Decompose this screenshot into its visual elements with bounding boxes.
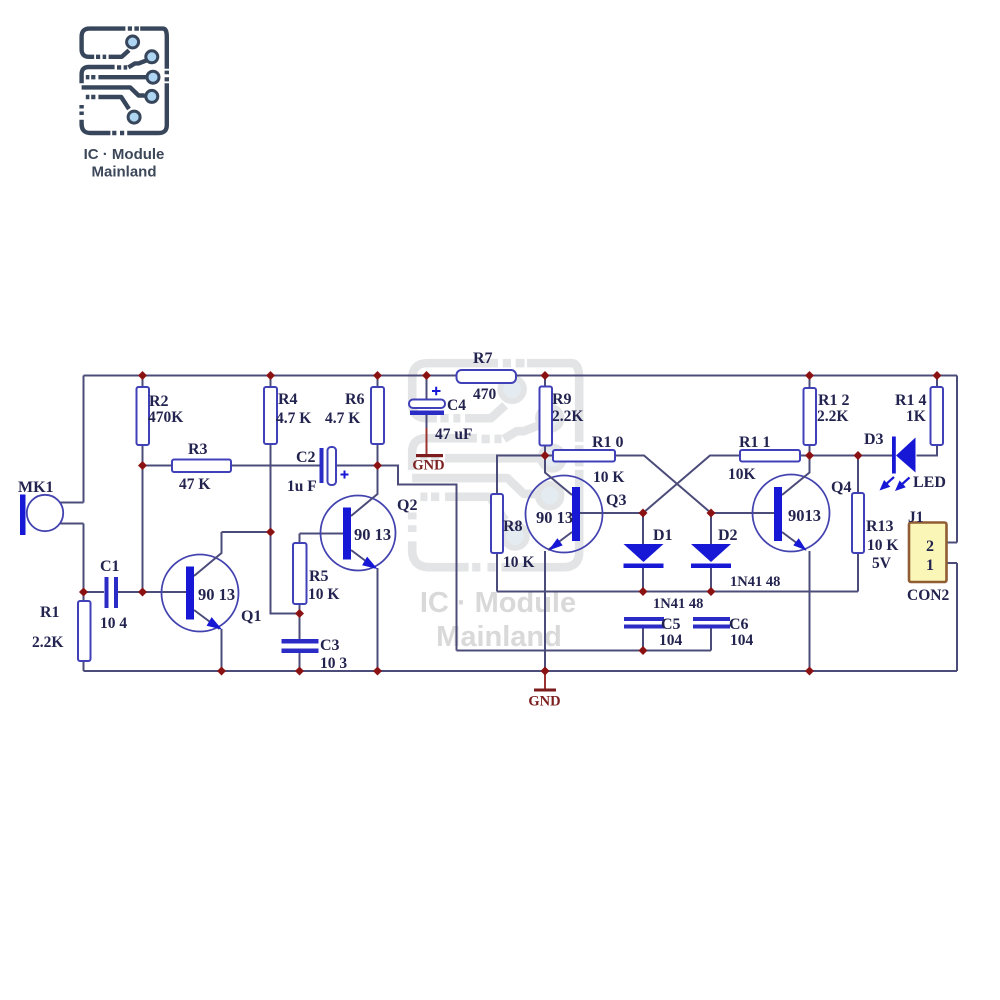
wire C3 bottom lead [299, 652, 301, 671]
svg-text:R6: R6 [345, 391, 365, 408]
svg-text:LED: LED [913, 474, 946, 491]
wire node A to R8 top [497, 456, 545, 592]
capacitor C4 electrolytic [409, 387, 472, 443]
svg-text:R13: R13 [866, 518, 894, 535]
wire R4 branch [270, 376, 272, 533]
resistor R7 [457, 350, 517, 403]
wire C3 top lead [299, 614, 301, 640]
svg-text:10 K: 10 K [503, 554, 534, 571]
svg-text:10 K: 10 K [593, 469, 624, 486]
watermark text IC Module Mainland [420, 587, 576, 653]
wire R4 node to R5 bottom [271, 532, 300, 614]
wire R13 branch [857, 456, 859, 592]
transistor Q3 [526, 456, 627, 672]
junction dots top rail [138, 371, 942, 380]
wire R1 branch [83, 592, 85, 671]
wire C1 right lead [118, 591, 143, 593]
svg-text:104: 104 [659, 632, 683, 649]
svg-text:47 K: 47 K [179, 476, 210, 493]
svg-text:GND: GND [528, 694, 560, 710]
svg-text:R1: R1 [40, 604, 60, 621]
diode D1 [624, 513, 704, 612]
svg-text:10 3: 10 3 [320, 655, 347, 672]
transistor Q2 [321, 466, 418, 672]
svg-text:C1: C1 [100, 558, 120, 575]
svg-text:1: 1 [926, 557, 934, 574]
svg-text:1K: 1K [906, 408, 926, 425]
svg-text:2.2K: 2.2K [552, 408, 583, 425]
wire bottom ground rail [84, 670, 958, 672]
wire R6 branch [377, 376, 379, 466]
svg-text:D3: D3 [864, 431, 884, 448]
svg-text:CON2: CON2 [907, 587, 949, 604]
transistor Q4 [753, 456, 852, 672]
wire R11 left lead cross couple to Q3 base node [643, 456, 740, 514]
wire left rail lower [83, 524, 85, 593]
junction dots middle [79, 451, 863, 655]
wire R5 branch [299, 534, 301, 614]
wire R2 node to C1 node [142, 466, 144, 593]
svg-text:104: 104 [730, 632, 754, 649]
capacitor C6 [693, 616, 754, 651]
svg-text:R1 1: R1 1 [739, 434, 771, 451]
wire R12 branch [809, 376, 811, 456]
wire Q4 base [711, 512, 774, 514]
wire R10 right lead cross couple to Q4 base node [615, 456, 711, 514]
wire C1 left lead [84, 591, 105, 593]
svg-text:90 13: 90 13 [354, 525, 391, 544]
svg-text:R1 2: R1 2 [818, 392, 850, 409]
svg-text:Mainland: Mainland [436, 621, 562, 653]
diode D2 [691, 513, 780, 592]
svg-text:4.7 K: 4.7 K [276, 410, 311, 427]
svg-text:R1 4: R1 4 [895, 392, 927, 409]
wire R2 branch [142, 376, 144, 466]
resistor R10 [553, 434, 624, 486]
resistor R4 [264, 387, 311, 444]
svg-text:10 K: 10 K [308, 586, 339, 603]
svg-text:R5: R5 [309, 568, 329, 585]
wire C2 right lead [336, 465, 378, 467]
svg-text:GND: GND [412, 458, 444, 474]
svg-text:1u F: 1u F [287, 478, 317, 495]
svg-text:90 13: 90 13 [536, 508, 573, 527]
svg-text:R2: R2 [149, 393, 169, 410]
resistor R5 [293, 543, 339, 604]
svg-text:2.2K: 2.2K [817, 408, 848, 425]
svg-text:Q2: Q2 [397, 497, 417, 514]
ground symbol near C4 [412, 428, 444, 474]
svg-text:D1: D1 [653, 527, 673, 544]
svg-text:MK1: MK1 [18, 479, 54, 496]
svg-text:Q4: Q4 [831, 479, 851, 496]
capacitor C3 [282, 637, 348, 672]
wire R9 branch [544, 376, 546, 456]
LED D3 [864, 431, 946, 491]
resistor R11 [728, 434, 800, 483]
svg-text:Q1: Q1 [241, 608, 261, 625]
wire Q2 base [300, 533, 344, 535]
svg-text:9013: 9013 [788, 506, 821, 525]
svg-text:R7: R7 [473, 350, 493, 367]
svg-text:Q3: Q3 [606, 492, 626, 509]
svg-text:47 uF: 47 uF [435, 426, 472, 443]
wire C4 top lead [426, 376, 428, 401]
wire Q3 base [580, 512, 643, 514]
wire right rail upper [956, 376, 958, 543]
svg-text:R1 0: R1 0 [592, 434, 624, 451]
brand text IC Module Mainland [84, 146, 165, 181]
wire right rail lower [956, 563, 958, 671]
brand logo icon [82, 29, 167, 133]
svg-text:R8: R8 [503, 518, 523, 535]
resistor R9 [540, 387, 584, 446]
svg-text:470: 470 [473, 386, 497, 403]
svg-text:C4: C4 [447, 397, 466, 414]
svg-text:10 4: 10 4 [100, 615, 127, 632]
wire Q1 base [143, 591, 187, 593]
capacitor C5 [624, 616, 683, 651]
svg-text:R9: R9 [552, 391, 572, 408]
wire trigger line to C5 C6 bottoms [457, 650, 712, 652]
wire MK1 top lead [60, 502, 84, 504]
svg-text:R3: R3 [188, 441, 208, 458]
resistor R12 [804, 388, 850, 445]
svg-text:D2: D2 [718, 527, 738, 544]
watermark center logo [412, 363, 579, 567]
resistor R8 [491, 494, 534, 571]
svg-text:1N41 48: 1N41 48 [730, 574, 780, 590]
svg-text:C2: C2 [296, 449, 316, 466]
wire R3 right lead to C2 [231, 465, 320, 467]
wire top supply rail [84, 375, 958, 377]
wire R3 left lead [143, 465, 174, 467]
microphone MK1 [18, 479, 63, 535]
resistor R13 [852, 493, 898, 572]
svg-text:10 K: 10 K [867, 537, 898, 554]
wire R8 D1 D2 R13 bottom line [497, 591, 858, 593]
svg-text:2.2K: 2.2K [32, 634, 63, 651]
connector J1 [907, 509, 949, 604]
wire C4 bottom lead [426, 414, 428, 428]
svg-text:2: 2 [926, 538, 934, 555]
svg-text:C6: C6 [729, 616, 749, 633]
svg-text:C5: C5 [661, 616, 681, 633]
wire LED anode to R14 [917, 445, 938, 456]
svg-text:Mainland: Mainland [91, 164, 156, 181]
wire node B to LED [800, 455, 893, 457]
wire J1 pin 1 stub [947, 562, 958, 564]
svg-text:R4: R4 [278, 391, 298, 408]
resistor R14 [895, 387, 943, 445]
ground symbol bottom [528, 671, 560, 710]
svg-text:10K: 10K [728, 466, 756, 483]
resistor R6 [325, 387, 384, 444]
wire left rail upper [83, 376, 85, 503]
svg-text:C3: C3 [320, 637, 340, 654]
resistor R3 [172, 441, 231, 493]
resistor R1 [32, 601, 91, 661]
svg-text:5V: 5V [872, 555, 892, 572]
wire J1 pin 2 stub [947, 542, 958, 544]
wire R14 branch [936, 376, 938, 446]
svg-text:470K: 470K [148, 409, 183, 426]
resistor R2 [137, 387, 184, 445]
capacitor C1 [100, 558, 127, 632]
svg-text:4.7 K: 4.7 K [325, 410, 360, 427]
wire coupling Q2 collector to trigger line [378, 466, 457, 651]
capacitor C2 [287, 447, 349, 495]
svg-text:IC · Module: IC · Module [84, 146, 165, 163]
svg-text:J1: J1 [908, 509, 924, 526]
wire Q1 collector to R4 node [222, 531, 271, 533]
transistor Q1 [162, 532, 262, 671]
svg-text:1N41 48: 1N41 48 [653, 596, 703, 612]
svg-text:90 13: 90 13 [198, 585, 235, 604]
wire R10 left lead [545, 455, 553, 457]
junction dots bottom rail [217, 667, 814, 676]
wire MK1 bottom lead [60, 523, 84, 525]
